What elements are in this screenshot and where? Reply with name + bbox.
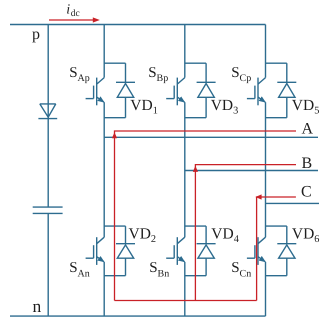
svg-text:SCn: SCn <box>231 260 251 279</box>
wire leg B upper <box>184 25 186 78</box>
transistor S_Cp <box>247 78 266 106</box>
wire left source leg upper <box>47 25 49 208</box>
wire leg C emitter to phase node <box>265 102 267 237</box>
arrow phase B current <box>193 166 198 172</box>
wire red phase C current path <box>257 197 296 301</box>
wire red phase A current path <box>115 131 297 301</box>
diode VD6 branch <box>266 226 297 276</box>
capacitor C dc-link <box>33 207 63 213</box>
svg-text:VD3: VD3 <box>211 97 239 117</box>
svg-text:SBn: SBn <box>149 260 169 279</box>
transistor S_An <box>86 237 105 265</box>
svg-text:B: B <box>302 155 313 172</box>
svg-text:SCp: SCp <box>231 65 251 84</box>
wire bottom rail n <box>10 315 266 317</box>
wire red negative bus <box>115 300 257 302</box>
wire i_dc arrow line <box>49 19 94 21</box>
wire phase A output <box>104 136 318 138</box>
svg-text:VD6: VD6 <box>292 225 320 245</box>
diode VD3 branch <box>185 63 216 117</box>
wire phase B output <box>185 170 318 172</box>
transistor S_Ap <box>86 78 105 106</box>
wire top rail p <box>10 24 266 26</box>
wire left source leg lower <box>47 213 49 316</box>
svg-text:SAp: SAp <box>69 65 90 84</box>
svg-text:n: n <box>33 296 42 316</box>
svg-text:C: C <box>301 183 312 200</box>
diode VD2 branch <box>104 226 135 276</box>
wire leg A emitter to phase node <box>103 102 105 237</box>
transistor S_Bn <box>166 237 185 265</box>
diode VD1 branch <box>104 63 135 117</box>
wire leg B emitter to phase node <box>184 102 186 237</box>
svg-text:A: A <box>302 121 314 138</box>
arrow i_dc <box>93 17 100 22</box>
wire leg A upper <box>103 25 105 78</box>
arrow phase C current <box>255 194 261 199</box>
svg-text:VD2: VD2 <box>129 225 157 245</box>
diode VD5 branch <box>266 63 297 117</box>
svg-text:SAn: SAn <box>69 260 90 279</box>
wire red phase B current path <box>195 165 296 301</box>
wire leg B lower <box>184 262 186 316</box>
svg-text:VD5: VD5 <box>292 97 320 117</box>
arrow phase A current <box>112 132 117 138</box>
svg-text:idc: idc <box>66 3 79 20</box>
diode VD4 branch <box>185 226 216 276</box>
svg-text:p: p <box>32 26 40 43</box>
svg-text:VD4: VD4 <box>211 225 239 245</box>
svg-text:SBp: SBp <box>148 65 168 84</box>
svg-text:VD1: VD1 <box>130 97 158 117</box>
transistor S_Bp <box>166 78 185 106</box>
diode D source <box>38 104 57 119</box>
wire leg C lower <box>265 262 267 316</box>
wire leg A lower <box>103 262 105 316</box>
wire phase C output <box>266 202 320 204</box>
transistor S_Cn <box>247 237 266 265</box>
wire leg C upper <box>265 25 267 78</box>
